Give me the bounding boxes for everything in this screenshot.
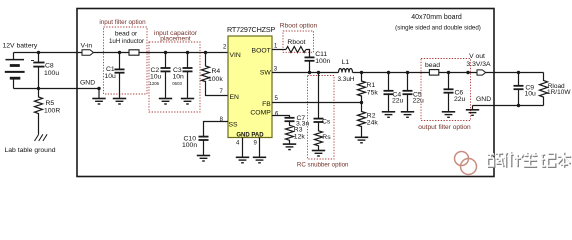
lab table ground (earth) <box>35 134 48 141</box>
svg-text:bead: bead <box>425 62 440 69</box>
capacitor C1 <box>105 53 125 98</box>
wire L1 to Vout tag <box>353 72 478 74</box>
svg-text:3.3uH: 3.3uH <box>337 76 354 83</box>
svg-text:12k: 12k <box>294 134 306 141</box>
svg-text:SS: SS <box>229 122 239 129</box>
input filter option box <box>104 27 148 94</box>
Rboot option box <box>283 31 314 52</box>
capacitor C8 <box>31 53 59 89</box>
svg-text:40x70mm board: 40x70mm board <box>411 14 462 21</box>
svg-text:R4: R4 <box>212 68 221 75</box>
board outline 40x70mm <box>77 9 494 177</box>
capacitor C10 <box>182 135 209 155</box>
gnd pad pin 4 stub <box>242 138 244 158</box>
svg-text:75k: 75k <box>367 89 379 96</box>
svg-text:3.3V/3A: 3.3V/3A <box>466 61 491 68</box>
svg-text:100n: 100n <box>315 58 330 65</box>
svg-text:12V battery: 12V battery <box>3 42 38 49</box>
svg-text:GND: GND <box>80 79 95 86</box>
svg-text:output filter option: output filter option <box>418 124 471 131</box>
gnd pad pin 9 stub <box>259 138 261 158</box>
ground under R2 <box>355 137 368 143</box>
svg-text:100n: 100n <box>182 142 197 149</box>
svg-text:RT7297CHZSP: RT7297CHZSP <box>227 25 276 34</box>
svg-text:10u: 10u <box>525 90 537 97</box>
node C9 top <box>517 71 520 74</box>
capacitor Cs <box>314 73 331 126</box>
capacitor C9 <box>514 73 537 106</box>
output filter option box <box>421 59 471 121</box>
svg-text:placement: placement <box>160 35 191 42</box>
wire Rboot to C11 <box>306 50 310 57</box>
svg-text:Rboot: Rboot <box>287 39 305 46</box>
ground under pin 9 <box>253 157 266 163</box>
svg-text:Cs: Cs <box>322 119 331 126</box>
svg-text:10n: 10n <box>173 74 185 81</box>
node battery-/C8/R5 <box>37 87 40 90</box>
svg-text:C8: C8 <box>45 63 54 70</box>
svg-text:FB: FB <box>262 101 271 108</box>
node C11/SW <box>308 71 311 74</box>
capacitor C4 <box>384 73 404 112</box>
node C6/out <box>447 71 450 74</box>
ground under C5 <box>401 112 414 118</box>
node snubber/SW <box>317 71 320 74</box>
svg-text:10u: 10u <box>150 74 162 81</box>
svg-text:R2: R2 <box>367 112 376 119</box>
svg-text:100R: 100R <box>44 108 60 115</box>
ground under Rs <box>312 151 325 157</box>
board title text <box>395 14 481 32</box>
svg-text:22u: 22u <box>392 97 404 104</box>
svg-text:R3: R3 <box>294 127 303 134</box>
capacitor C7 <box>285 115 310 127</box>
node C4/out <box>387 71 390 74</box>
capacitor C3 <box>172 53 192 98</box>
ground under C1 <box>113 99 126 105</box>
node C3 <box>186 51 189 54</box>
wire COMP pin to C7 <box>272 116 290 118</box>
wire output ground rail <box>473 105 544 107</box>
V out connector tag <box>477 70 486 75</box>
resistor R2 <box>358 103 379 138</box>
svg-text:1uH inductor: 1uH inductor <box>109 38 144 45</box>
ground under C3 <box>181 99 194 105</box>
resistor Rload <box>540 73 572 106</box>
svg-text:Rboot option: Rboot option <box>280 23 318 30</box>
ground at board output <box>466 106 479 116</box>
resistor R1 <box>358 73 379 103</box>
svg-text:22u: 22u <box>413 97 425 104</box>
wire BOOT pin <box>272 49 286 51</box>
ground under C2 <box>159 99 172 105</box>
battery BT1 <box>5 53 25 89</box>
svg-text:1R/10W: 1R/10W <box>547 89 571 96</box>
node C5/out <box>406 71 409 74</box>
capacitor C5 <box>403 73 425 112</box>
wire battery- ground rail <box>14 88 100 90</box>
node R1/out <box>360 71 363 74</box>
wire battery+ to V-in <box>14 52 83 54</box>
svg-text:input filter option: input filter option <box>99 19 146 26</box>
resistor Rs <box>315 122 332 150</box>
capacitor C11 <box>305 51 331 72</box>
input bead FB1 <box>129 50 139 55</box>
svg-text:L1: L1 <box>342 59 350 66</box>
svg-text:100k: 100k <box>208 76 223 83</box>
svg-text:1206: 1206 <box>150 81 160 86</box>
resistor R4 <box>202 53 229 96</box>
output bead FB2 <box>429 70 438 76</box>
svg-text:C11: C11 <box>315 51 327 58</box>
svg-text:COMP: COMP <box>250 109 271 116</box>
watermark text hanzi <box>487 151 571 168</box>
wire bead to VIN pin <box>139 52 228 54</box>
capacitor C6 <box>444 73 466 112</box>
svg-text:RC snubber option: RC snubber option <box>297 161 349 168</box>
inductor L1 <box>337 59 354 83</box>
ground at board input <box>92 89 105 105</box>
V-in connector tag <box>82 50 93 56</box>
svg-text:22u: 22u <box>454 96 466 103</box>
svg-text:bead or: bead or <box>115 31 138 38</box>
wire SS pin to C10 <box>204 122 229 137</box>
svg-text:Rs: Rs <box>322 134 331 141</box>
node R4 <box>204 51 207 54</box>
input capacitor placement box <box>149 42 200 112</box>
node C9 bottom <box>517 104 520 107</box>
svg-text:SW: SW <box>260 70 272 77</box>
svg-text:R1: R1 <box>367 82 376 89</box>
svg-text:EN: EN <box>230 94 240 101</box>
svg-text:100u: 100u <box>44 70 59 77</box>
resistor Rboot <box>286 39 306 52</box>
node gnd entry <box>97 87 100 90</box>
svg-text:R5: R5 <box>46 100 55 107</box>
svg-text:24k: 24k <box>367 120 379 127</box>
wire FB pin <box>272 102 362 104</box>
ground under C4 <box>382 112 395 118</box>
ground under C6 <box>442 112 455 118</box>
wire SW rail <box>272 72 339 74</box>
node C1/Vin rail <box>118 51 121 54</box>
resistor R3 <box>286 122 306 144</box>
op IC U1 RT7297CHZSP <box>227 25 276 139</box>
svg-text:Lab table ground: Lab table ground <box>5 147 56 154</box>
svg-text:GND: GND <box>476 96 491 103</box>
svg-text:V-in: V-in <box>81 43 93 50</box>
resistor R5 <box>35 89 61 135</box>
RC snubber option box <box>308 76 335 160</box>
node C2 <box>164 51 167 54</box>
node battery+/C8 <box>37 51 40 54</box>
node V out <box>466 71 469 74</box>
wire V out to load <box>486 72 544 74</box>
ground under R3 <box>283 144 296 150</box>
svg-text:10u: 10u <box>105 73 117 80</box>
ground under pin 4 <box>236 157 249 163</box>
svg-text:0603: 0603 <box>172 81 182 86</box>
svg-text:VIN: VIN <box>230 52 241 59</box>
watermark logo circles <box>455 152 477 175</box>
svg-text:(single sided and double sided: (single sided and double sided) <box>395 25 481 32</box>
svg-text:BOOT: BOOT <box>252 48 271 55</box>
wire V-in to bead <box>93 52 129 54</box>
ground under C10 <box>197 156 210 162</box>
capacitor C2 <box>150 53 171 98</box>
svg-text:V out: V out <box>469 53 485 60</box>
node FB <box>360 101 363 104</box>
